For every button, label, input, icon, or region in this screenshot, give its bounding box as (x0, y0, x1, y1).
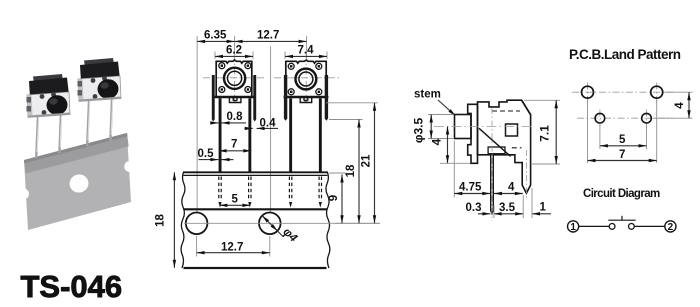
svg-text:3.5: 3.5 (499, 202, 516, 214)
svg-text:18: 18 (345, 164, 357, 177)
pad BR (642, 113, 652, 123)
dimension 5 (219, 204, 250, 206)
side view: chamfer edge fix (522, 100, 531, 115)
svg-text:TS-046: TS-046 (21, 269, 123, 304)
dimension 6.35 (197, 40, 235, 42)
dimension 1 (532, 213, 551, 215)
svg-text:21: 21 (361, 154, 373, 167)
sprocket hole H2 (259, 213, 281, 235)
photo: tact switch 1 (27, 74, 71, 118)
dimension 6.2 (215, 55, 253, 57)
photo: carrier tape strip (18, 133, 135, 230)
svg-text:12.7: 12.7 (257, 30, 279, 42)
svg-text:1: 1 (570, 222, 576, 233)
terminal 2 (665, 221, 676, 232)
actuator bar (608, 219, 635, 221)
terminal 1 (568, 221, 579, 232)
pad TR (651, 86, 663, 98)
svg-text:0.3: 0.3 (466, 202, 482, 214)
dimension 3.5 (494, 213, 524, 215)
dimension 4 (lead to leg) (494, 193, 523, 195)
dimension 12.7 bottom (197, 236, 270, 257)
svg-text:6.35: 6.35 (204, 30, 227, 42)
dimension 4.75 (453, 141, 455, 198)
svg-text:P.C.B.Land Pattern: P.C.B.Land Pattern (569, 47, 681, 62)
svg-text:7.1: 7.1 (538, 125, 552, 142)
svg-text:stem: stem (414, 89, 441, 101)
side view: stem axis centerline (434, 126, 533, 128)
dimension 18 right (358, 120, 360, 224)
svg-text:18: 18 (155, 214, 167, 227)
photo: tact switch 2 (78, 58, 122, 102)
side view: inner square window (506, 124, 518, 136)
side view: lead (491, 154, 494, 214)
leg edge extension lines (494, 188, 532, 218)
carrier tape front: top edge (184, 171, 328, 173)
contact right (629, 224, 635, 230)
svg-text:7.4: 7.4 (298, 45, 315, 57)
side view: mounting plate (468, 104, 478, 163)
dimension 5 (pads) (600, 145, 647, 147)
svg-text:Circuit Diagram: Circuit Diagram (583, 188, 660, 200)
svg-text:5: 5 (619, 134, 626, 146)
front view: extension lines 6.35/12.7 (197, 36, 327, 212)
contact left (609, 224, 615, 230)
front view switch S2: body (284, 60, 329, 97)
dimension 0.4 (245, 127, 253, 129)
dimension 21 (374, 103, 376, 224)
svg-text:7: 7 (619, 149, 625, 161)
svg-text:0.5: 0.5 (198, 148, 215, 160)
svg-text:2: 2 (668, 222, 674, 233)
dimension phi3.5 (428, 115, 453, 139)
dimension 0.3 (478, 213, 490, 215)
side view: lead centerline (491, 108, 493, 221)
carrier tape front: wavy right edge (326, 172, 330, 269)
pad BL (595, 113, 605, 123)
side view: inner bottom rect (488, 147, 505, 154)
svg-text:0.8: 0.8 (227, 111, 244, 123)
side view: diagonal line (479, 128, 511, 156)
dimension 7 (lead span) (219, 150, 252, 152)
svg-text:6.2: 6.2 (226, 45, 242, 57)
wire left (579, 225, 610, 227)
switch S2 bottom boss (300, 98, 312, 103)
svg-text:7: 7 (231, 139, 237, 151)
svg-text:4.75: 4.75 (459, 182, 482, 194)
svg-text:12.7: 12.7 (221, 242, 243, 254)
pad TL (582, 86, 594, 98)
front view switch S1: body (213, 60, 254, 97)
switch S1 leads (219, 98, 222, 172)
svg-text:5: 5 (232, 194, 239, 206)
switch S2 leads (289, 98, 292, 172)
photo: switch leads (36, 99, 112, 158)
front view: centerlines (203, 54, 339, 104)
dimension 7.1 (524, 100, 560, 164)
dimension 0.5 (199, 159, 219, 161)
land pattern centerlines (572, 83, 673, 128)
side view: stem (455, 115, 472, 139)
svg-text:φ3.5: φ3.5 (412, 118, 426, 144)
switch S1 side tabs (212, 75, 215, 122)
carrier tape front: lead end line (184, 208, 328, 210)
wire right (634, 225, 665, 227)
switch S1 bottom boss (229, 98, 241, 103)
dimension 4 (pads) (688, 92, 690, 118)
leads hidden in tape (dashed) (219, 177, 322, 202)
hole centerline horizontal (184, 222, 380, 224)
dimension 9 (341, 175, 343, 224)
dimension 0.8 (210, 122, 218, 124)
land pattern extension lines (588, 92, 693, 163)
svg-text:4: 4 (430, 138, 444, 145)
switch S2 side tabs (284, 75, 287, 121)
dimension 7.4 (285, 55, 327, 57)
svg-text:1: 1 (540, 202, 547, 214)
side view: hidden dashes (492, 111, 522, 148)
carrier tape front: bottom edge (184, 267, 327, 269)
svg-text:4: 4 (508, 182, 515, 194)
svg-text:0.4: 0.4 (260, 118, 277, 130)
dimension phi4 leader (262, 216, 283, 237)
right side extension lines (326, 103, 380, 224)
dimension 4 (stem axis to plate bottom) (447, 127, 449, 164)
side view: leg centerline (525, 150, 527, 200)
side view: body outline (478, 100, 531, 193)
sprocket hole H1 (186, 213, 208, 235)
carrier tape front: wavy left edge (181, 172, 185, 269)
svg-text:9: 9 (328, 195, 340, 201)
dimension 18 left (173, 172, 175, 267)
svg-text:4: 4 (674, 102, 686, 109)
dimension 12.7 top (235, 40, 307, 42)
dimension 7 (pads) (588, 160, 657, 162)
